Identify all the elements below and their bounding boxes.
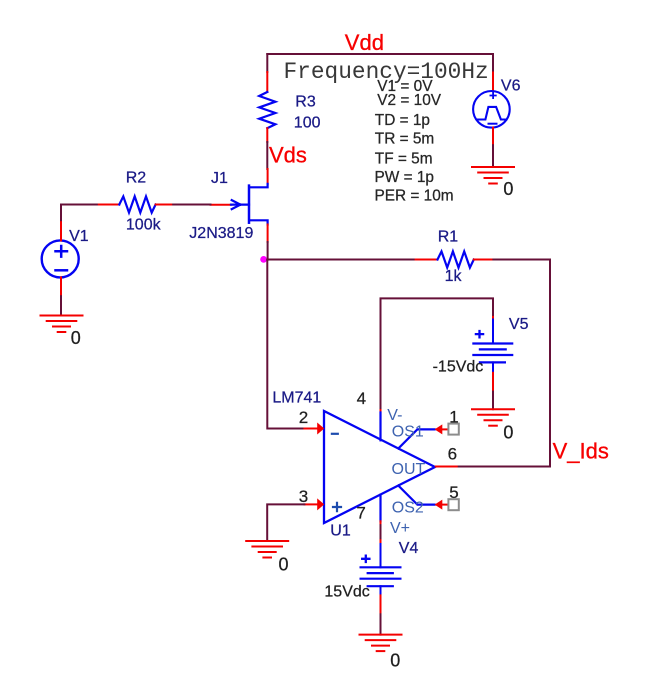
resistor R2 (119, 196, 155, 212)
svg-text:0: 0 (503, 179, 513, 199)
svg-text:2: 2 (299, 408, 308, 427)
svg-text:15Vdc: 15Vdc (324, 583, 369, 600)
resistor R3 (259, 92, 275, 128)
wire R3 branch from rail (266, 54, 268, 72)
wire V1 to R2 (61, 205, 99, 223)
svg-text:OS2: OS2 (392, 500, 424, 517)
pin V6 minus pin (492, 128, 494, 146)
pin J1 source pin (267, 225, 269, 243)
svg-text:J2N3819: J2N3819 (189, 225, 253, 242)
svg-text:OUT: OUT (392, 461, 426, 478)
plus marker (333, 503, 341, 511)
pin V1 minus pin (60, 277, 62, 296)
pin V4 minus pin (380, 595, 382, 614)
pin U1 pin5 OS2 arrow (435, 500, 443, 510)
wire V5 to ground (492, 392, 494, 410)
svg-text:3: 3 (299, 487, 308, 506)
pin J1 gate pin (211, 204, 232, 206)
pin R1 right pin (474, 259, 494, 261)
ground 0 at pin3 (246, 541, 288, 558)
pin V4 plus pin (380, 540, 382, 544)
svg-text:0: 0 (390, 651, 400, 671)
svg-text:1: 1 (449, 408, 458, 427)
minus marker (332, 433, 338, 435)
U1 OS2 stub (398, 486, 434, 505)
resistor R1 (438, 251, 474, 267)
ground 0 below V6 (472, 167, 514, 184)
wire R3 to J1 drain (266, 142, 268, 169)
junction node dot (260, 256, 267, 263)
svg-text:100: 100 (294, 115, 321, 132)
svg-text:R1: R1 (438, 229, 459, 246)
svg-text:PER = 10m: PER = 10m (375, 187, 454, 204)
svg-text:Vdd: Vdd (345, 30, 384, 55)
svg-text:6: 6 (448, 444, 457, 463)
pin R1 left pin (416, 259, 438, 261)
svg-text:4: 4 (357, 389, 366, 408)
wire R2 to J1 gate (173, 204, 210, 206)
transistor J1 (J2N3819 JFET) (249, 184, 268, 225)
pin V5 minus pin (492, 373, 494, 392)
svg-text:-15Vdc: -15Vdc (433, 359, 484, 376)
svg-text:7: 7 (356, 503, 365, 522)
svg-text:0: 0 (279, 555, 289, 575)
ground 0 below V4 (360, 635, 402, 652)
svg-text:TD = 1p: TD = 1p (375, 112, 430, 129)
wire junction to R1 (267, 259, 415, 261)
svg-text:TF = 5m: TF = 5m (375, 150, 433, 167)
pin R3 top pin (266, 72, 268, 92)
ground 0 below V5 (472, 409, 514, 426)
J1 gate arrow (231, 200, 249, 209)
svg-text:100k: 100k (126, 217, 162, 234)
svg-text:V+: V+ (390, 520, 410, 537)
wire V6 branch top (492, 54, 494, 73)
pin V5 plus pin (492, 317, 494, 320)
wire V4 to ground (380, 614, 382, 634)
pin R2 left pin (99, 204, 120, 206)
svg-text:V5: V5 (509, 316, 529, 333)
svg-text:R3: R3 (295, 94, 316, 111)
pin U1 pin6 OUT (436, 466, 457, 468)
svg-text:V2 = 10V: V2 = 10V (377, 92, 441, 109)
source V5 (battery) (473, 320, 512, 373)
wire to V6 ground (492, 145, 494, 167)
wire source to junction (267, 242, 269, 260)
wire V1 to ground (60, 296, 62, 315)
svg-text:R2: R2 (126, 170, 147, 187)
op-amp U1 LM741 (324, 411, 435, 523)
svg-text:V_Ids: V_Ids (553, 439, 609, 464)
wire junction to pin2 of U1 (267, 260, 304, 429)
U1 pin7 stub (379, 495, 381, 522)
pin U1 pin2 (inverting) (304, 428, 317, 430)
svg-text:Vds: Vds (269, 143, 307, 168)
pin U1 pin4 tick (380, 410, 382, 413)
svg-text:V1: V1 (69, 228, 89, 245)
U1 OS1 stub (398, 429, 434, 448)
pin R2 right pin (156, 204, 174, 206)
svg-text:V-: V- (387, 407, 402, 424)
U1 pin4 stub (379, 413, 381, 441)
ground 0 below V1 (41, 316, 83, 333)
svg-text:0: 0 (503, 423, 513, 443)
source V1 (42, 240, 79, 277)
pin V6 plus pin (492, 73, 494, 92)
pin U1 pin3 (non-inverting) (304, 503, 317, 505)
svg-text:U1: U1 (330, 522, 351, 539)
wire pin4 loop to V5 (381, 298, 494, 410)
wire Vdd top rail (267, 53, 493, 55)
svg-text:0: 0 (71, 328, 81, 348)
svg-text:5: 5 (449, 483, 458, 502)
svg-text:LM741: LM741 (272, 390, 321, 407)
unconnected square pin1 (448, 424, 458, 435)
svg-text:TR = 5m: TR = 5m (375, 130, 434, 147)
wire pin3 to ground (267, 504, 304, 541)
svg-text:PW = 1p: PW = 1p (375, 169, 434, 186)
svg-text:J1: J1 (211, 170, 228, 187)
svg-text:V6: V6 (501, 78, 521, 95)
pin U1 pin7 tick (380, 521, 382, 525)
wire pin7 to V4 (380, 525, 382, 540)
wire R1 to OUT (right loop) (457, 260, 550, 467)
pin J1 drain pin (267, 169, 269, 184)
pin R3 bottom pin (266, 128, 268, 142)
unconnected square pin5 (448, 499, 458, 510)
source V6 (VPULSE) (473, 91, 510, 128)
svg-text:OS1: OS1 (392, 423, 424, 440)
svg-text:1k: 1k (445, 268, 463, 285)
pin V1 plus pin (60, 222, 62, 240)
source V4 (battery) (361, 544, 401, 595)
pin U1 pin1 OS1 arrow (435, 424, 443, 434)
svg-text:V4: V4 (399, 540, 419, 557)
